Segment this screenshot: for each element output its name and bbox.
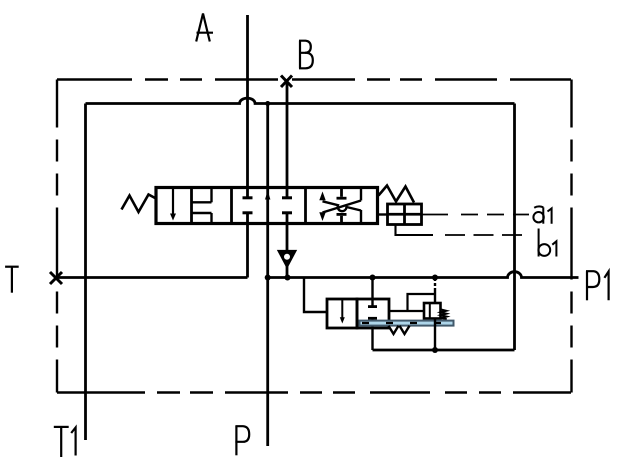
- relief spring zigzag: [389, 326, 410, 334]
- wire valve to detent: [378, 213, 388, 215]
- pilot spring: [441, 309, 447, 319]
- spring right: [379, 186, 415, 203]
- wire pilot riser: [408, 294, 436, 311]
- label P: [235, 426, 249, 455]
- port X mark T: [50, 272, 62, 284]
- position 4 blocked center: [337, 189, 347, 222]
- wire relief bottom return: [373, 349, 515, 352]
- position 2 passages: [192, 189, 212, 222]
- junction B main: [285, 275, 291, 281]
- label b1: [538, 229, 556, 257]
- wire a1 dashed: [461, 214, 529, 216]
- wire pilot dashed drop: [434, 278, 436, 303]
- position 4 up arrow: [319, 192, 325, 201]
- wire to relief inlet: [304, 278, 327, 313]
- drain dashed line: [362, 322, 453, 324]
- relief blocked port bottom: [368, 317, 377, 320]
- junction relief main: [370, 275, 376, 281]
- detent box: [388, 204, 422, 225]
- wire B line upper: [286, 80, 289, 198]
- valve block top edge with crossover hump: [86, 98, 515, 103]
- position 3 blocked ports: [243, 198, 293, 213]
- wire B line mid: [286, 213, 289, 252]
- port X mark B: [281, 76, 292, 88]
- label A: [196, 14, 213, 42]
- spring left: [122, 195, 157, 213]
- junction P main: [265, 275, 271, 281]
- relief blocked port top: [371, 278, 373, 306]
- junction pilot main: [432, 275, 438, 281]
- wire A line upper: [246, 15, 249, 198]
- pilot valve box: [424, 303, 441, 319]
- P arrow up: [265, 191, 270, 200]
- position 4 down arrow: [319, 212, 325, 221]
- wire P line: [266, 104, 269, 447]
- wire B to main line: [286, 266, 289, 278]
- relief valve main box: [357, 299, 389, 328]
- wire T to A elbow: [56, 276, 248, 279]
- label T1: [54, 427, 76, 457]
- valve divider 3: [304, 188, 307, 224]
- junction P top: [265, 101, 270, 106]
- label B: [299, 41, 313, 69]
- highlighted drain line (blue): [360, 321, 454, 326]
- valve divider 2: [230, 188, 233, 224]
- wire A line lower: [246, 213, 249, 278]
- wire pilot down: [434, 319, 436, 351]
- wire T1 / block left edge: [84, 104, 87, 441]
- spool valve V1 body: [156, 188, 378, 224]
- position 4 crossed passages: [323, 189, 362, 222]
- label a1: [533, 206, 551, 223]
- wire b1 dashed: [445, 234, 529, 236]
- block right edge: [513, 104, 516, 351]
- wire relief to pilot: [389, 310, 424, 312]
- relief valve spring box: [327, 299, 357, 328]
- junction pilot bottom: [432, 347, 438, 353]
- check valve on B: [279, 251, 295, 266]
- wire main line P-P1 with hump over block edge: [268, 272, 579, 278]
- relief spring box arrow: [341, 300, 343, 318]
- enclosure dashed boundary: [57, 80, 572, 393]
- label P1: [586, 271, 609, 300]
- wire a1 solid: [422, 214, 449, 216]
- valve divider 1: [190, 188, 193, 224]
- wire b1 elbow: [396, 225, 434, 236]
- label T: [5, 267, 19, 293]
- position 1 arrow: [172, 189, 174, 215]
